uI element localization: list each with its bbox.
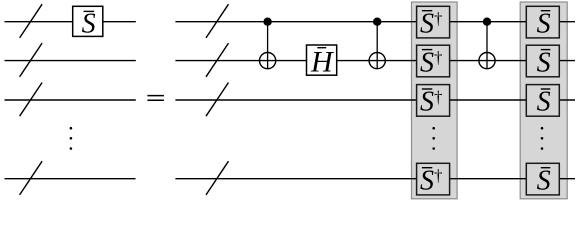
svg-text:H: H bbox=[310, 45, 335, 78]
svg-text:S: S bbox=[537, 87, 551, 118]
gate Sbar-dagger (column 1, q2) bbox=[417, 45, 450, 78]
equals sign bbox=[147, 96, 164, 101]
grey column 2 (S group) bbox=[520, 2, 567, 199]
wire q2 (right) bbox=[175, 60, 575, 62]
wire q3 (right) bbox=[175, 99, 575, 101]
gate Sbar-dagger (column 1, qn) bbox=[417, 163, 450, 196]
svg-text:S: S bbox=[420, 47, 434, 78]
svg-text:S: S bbox=[420, 8, 434, 39]
gate Sbar-dagger (column 1, q1) bbox=[417, 6, 450, 39]
gate Sbar (left circuit, q1) bbox=[73, 6, 103, 39]
gate Sbar (column 2, q1) bbox=[526, 6, 559, 39]
bus slash q1 (right) bbox=[206, 4, 229, 38]
bus slash q2 (left) bbox=[20, 43, 42, 77]
gate Sbar (column 2, q2) bbox=[526, 45, 559, 78]
wire qn (left, bottom) bbox=[5, 178, 136, 180]
svg-text:S: S bbox=[537, 47, 551, 78]
grey column 1 (S-dagger group) bbox=[412, 2, 458, 199]
wire q1 (right) bbox=[175, 21, 575, 23]
svg-text:†: † bbox=[434, 48, 443, 67]
wire q3 (left) bbox=[5, 99, 136, 101]
gate Sbar (column 2, q3) bbox=[526, 85, 559, 118]
bus slash qn (left) bbox=[20, 161, 42, 195]
svg-text:S: S bbox=[537, 165, 551, 196]
gate Hbar (q2) bbox=[307, 45, 337, 78]
gate Sbar (column 2, qn) bbox=[526, 163, 559, 196]
CNOT 2: target oplus (q2) bbox=[369, 53, 385, 69]
wire qn (right, bottom) bbox=[175, 178, 575, 180]
vdots (left circuit) bbox=[70, 127, 73, 150]
svg-text:†: † bbox=[434, 88, 443, 107]
CNOT 3: vertical link bbox=[486, 22, 488, 69]
wire q1 (left) bbox=[5, 21, 136, 23]
vdots (column 1) bbox=[432, 127, 435, 150]
gate Sbar-dagger (column 1, q3) bbox=[417, 85, 450, 118]
CNOT 3: control dot (q1) bbox=[483, 18, 491, 26]
vdots (column 2) bbox=[541, 127, 544, 150]
svg-text:S: S bbox=[537, 8, 551, 39]
wire q2 (left) bbox=[5, 60, 136, 62]
bus slash q2 (right) bbox=[206, 43, 229, 77]
CNOT 1: target oplus (q2) bbox=[260, 53, 276, 69]
CNOT 2: vertical link bbox=[376, 22, 378, 69]
bus slash q3 (right) bbox=[206, 83, 229, 117]
CNOT 3: target oplus (q2) bbox=[479, 53, 495, 69]
svg-text:†: † bbox=[434, 9, 443, 28]
bus slash q3 (left) bbox=[20, 83, 42, 117]
bus slash qn (right) bbox=[206, 161, 229, 195]
svg-text:S: S bbox=[420, 165, 434, 196]
bus slash q1 (left) bbox=[20, 4, 42, 38]
CNOT 2: control dot (q1) bbox=[373, 18, 381, 26]
CNOT 1: vertical link bbox=[267, 22, 269, 69]
svg-text:S: S bbox=[82, 8, 96, 39]
svg-text:†: † bbox=[434, 166, 443, 185]
CNOT 1: control dot (q1) bbox=[263, 18, 271, 26]
svg-text:S: S bbox=[420, 87, 434, 118]
